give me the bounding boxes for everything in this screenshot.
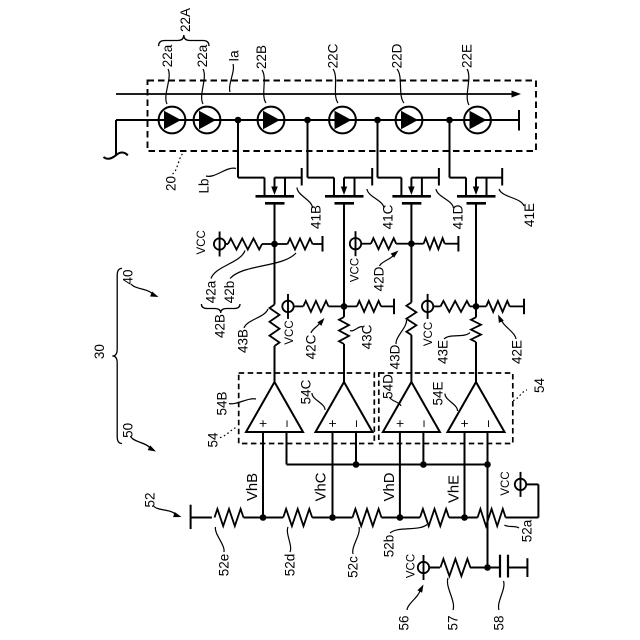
- node bus D: [420, 461, 427, 468]
- svg-text:42E: 42E: [510, 340, 525, 364]
- wire node B to 42b: [275, 243, 288, 245]
- transistor 41D: [378, 120, 439, 203]
- resistor 43D: [406, 302, 416, 335]
- node divider D: [408, 240, 415, 247]
- wire tap VhC to 52c: [333, 517, 353, 519]
- wire - input 54D to bus: [422, 432, 424, 465]
- resistor 43B: [270, 305, 280, 347]
- wire 43B to comparator: [274, 346, 276, 382]
- svg-text:41B: 41B: [309, 205, 324, 229]
- wire 42C-b to terminal: [381, 305, 394, 307]
- svg-text:VhD: VhD: [382, 473, 398, 502]
- svg-text:22C: 22C: [326, 43, 341, 68]
- svg-text:52d: 52d: [283, 554, 298, 577]
- node junction J3: [374, 117, 381, 124]
- VCC supply (channel C divider): [287, 294, 289, 319]
- svg-text:52c: 52c: [346, 556, 361, 578]
- wire VCC-D to resistor: [361, 243, 371, 245]
- node divider E: [473, 303, 480, 310]
- svg-text:+: +: [256, 419, 271, 427]
- wire to node B: [262, 243, 275, 245]
- svg-text:−: −: [416, 419, 431, 427]
- LED 22D: [396, 107, 423, 134]
- wire + input 54D to ladder tap: [399, 432, 401, 518]
- wire 52c to tap VhD: [382, 517, 400, 519]
- svg-text:54B: 54B: [215, 391, 230, 415]
- terminal bar cathode end: [518, 110, 520, 131]
- terminal bar ladder left: [190, 505, 192, 529]
- node tap VhC: [329, 514, 336, 521]
- resistor 52a: [478, 509, 506, 526]
- node junction J4: [446, 117, 453, 124]
- op-amp comparator 54D: [383, 382, 440, 432]
- svg-text:54C: 54C: [299, 379, 314, 404]
- svg-text:52a: 52a: [520, 519, 535, 542]
- svg-text:58: 58: [492, 615, 507, 630]
- wire 52e to tap VhB: [244, 517, 264, 519]
- svg-text:−: −: [481, 419, 496, 427]
- svg-text:30: 30: [92, 344, 107, 359]
- wire - input 54B to bus: [286, 432, 288, 465]
- dashed box 54 right half: [379, 373, 513, 444]
- wire node D down: [410, 244, 412, 303]
- wire 42E-b to terminal: [510, 305, 524, 307]
- node tap VhB: [260, 514, 267, 521]
- resistor 43E: [471, 317, 481, 342]
- wire to node C: [329, 305, 345, 307]
- wire 43D to comparator: [410, 335, 412, 382]
- svg-text:41C: 41C: [381, 204, 396, 229]
- svg-text:VCC: VCC: [406, 554, 418, 578]
- LED 22C: [329, 107, 356, 134]
- svg-text:54D: 54D: [381, 374, 396, 399]
- wire 43E to comparator: [475, 342, 477, 382]
- terminal bar 42D: [457, 236, 459, 252]
- resistor 42D-b: [424, 238, 445, 249]
- wire node C down: [343, 306, 345, 317]
- LED 22B: [258, 107, 285, 134]
- node bus E: [484, 461, 491, 468]
- node tap VhE: [461, 514, 468, 521]
- svg-text:VCC: VCC: [196, 230, 208, 254]
- op-amp comparator 54E: [448, 382, 505, 432]
- capacitor 58: [500, 555, 508, 578]
- resistor 52d: [283, 509, 312, 526]
- svg-text:43C: 43C: [360, 324, 375, 349]
- wire 52b to tap VhE: [449, 517, 465, 519]
- svg-text:52b: 52b: [382, 535, 397, 558]
- wire 57 to node: [470, 567, 488, 569]
- resistor 42C-b: [357, 301, 381, 312]
- op-amp comparator 54B: [246, 382, 303, 432]
- resistor 52c: [353, 509, 382, 526]
- svg-text:42B: 42B: [213, 314, 228, 338]
- svg-text:VhB: VhB: [245, 473, 261, 501]
- dashed box 20 (LED block): [148, 81, 537, 152]
- svg-text:VCC: VCC: [500, 471, 512, 495]
- wire + input 54B to ladder tap: [262, 432, 264, 518]
- terminal bar 42C: [393, 299, 395, 315]
- svg-text:VCC: VCC: [423, 322, 435, 346]
- wire + input 54C to ladder tap: [332, 432, 334, 518]
- wire corner up: [537, 484, 539, 517]
- wire gate lead 41E: [475, 203, 477, 306]
- svg-text:+: +: [325, 419, 340, 427]
- node divider B: [271, 241, 278, 248]
- node junction J1: [235, 117, 242, 124]
- wire ladder left: [191, 517, 212, 519]
- break squiggle: [104, 153, 128, 159]
- transistor 41E: [450, 120, 503, 203]
- wire left drop: [115, 120, 117, 155]
- wire tap VhD to 52b: [400, 517, 420, 519]
- wire VCC-B to resistor: [225, 243, 228, 245]
- svg-text:54E: 54E: [431, 381, 446, 405]
- wire - input 54C to bus: [355, 432, 357, 465]
- svg-text:22a: 22a: [160, 44, 175, 67]
- svg-text:52e: 52e: [217, 554, 232, 577]
- op-amp comparator 54C: [316, 382, 373, 432]
- wire VCC to resistor 57: [429, 567, 440, 569]
- svg-text:42D: 42D: [372, 266, 387, 291]
- resistor 42E-b: [486, 301, 509, 312]
- svg-text:54: 54: [206, 432, 221, 448]
- VCC supply (ladder top): [520, 472, 522, 497]
- terminal bar 42b: [322, 236, 324, 252]
- wire + input 54E to ladder tap: [464, 432, 466, 518]
- svg-text:22A: 22A: [178, 8, 193, 32]
- wire gate lead 41C: [343, 203, 345, 306]
- LED 22a #2: [194, 107, 221, 134]
- svg-text:VhC: VhC: [314, 472, 330, 501]
- wire tap VhB to 52d: [263, 517, 283, 519]
- transistor 41C: [308, 120, 373, 203]
- VCC supply (channel D divider): [355, 231, 357, 256]
- VCC supply (channel B divider): [219, 232, 221, 257]
- svg-text:Lb: Lb: [197, 178, 212, 193]
- wire - input 54E to bus and bottom: [487, 432, 489, 568]
- svg-text:20: 20: [164, 176, 179, 191]
- wire 52d to tap VhC: [312, 517, 332, 519]
- resistor 42D-a: [371, 238, 396, 249]
- LED 22E: [464, 107, 491, 134]
- svg-text:42a: 42a: [203, 280, 218, 303]
- wire LED anode row: [116, 119, 519, 121]
- svg-text:52: 52: [143, 492, 158, 507]
- transistor 41B: [238, 120, 302, 203]
- node divider C: [341, 303, 348, 310]
- brace 42B: [201, 304, 240, 313]
- wire node C to 42C-b: [344, 305, 357, 307]
- svg-text:43E: 43E: [436, 340, 451, 364]
- brace 22A: [159, 35, 209, 46]
- resistor 42C-a: [303, 301, 328, 312]
- wire capacitor to terminal: [508, 567, 527, 569]
- wire node B down: [274, 244, 276, 305]
- svg-text:+: +: [457, 419, 472, 427]
- terminal bar bottom: [526, 558, 528, 577]
- wire 42D-b to terminal: [445, 243, 459, 245]
- wire VCC-E to resistor: [433, 305, 440, 307]
- terminal bar 42E: [523, 299, 525, 315]
- wire node E down: [475, 306, 477, 317]
- VCC supply (channel E divider): [427, 294, 429, 319]
- svg-text:43D: 43D: [388, 344, 403, 369]
- node bus C: [353, 461, 360, 468]
- resistor 52e: [215, 509, 244, 526]
- svg-text:41E: 41E: [522, 203, 537, 227]
- wire 52a to corner: [506, 517, 539, 519]
- node junction J2: [304, 117, 311, 124]
- node tap VhD: [397, 514, 404, 521]
- dashed box 54 left half: [239, 373, 375, 444]
- wire node E to 42E-b: [476, 305, 486, 307]
- wire to VCC 52a: [526, 483, 538, 485]
- LED 22a #1: [159, 107, 186, 134]
- resistor 42E-a: [441, 301, 470, 312]
- wire 42b to terminal: [313, 243, 323, 245]
- svg-text:43B: 43B: [236, 329, 251, 353]
- wire Ia current line with arrow: [116, 93, 512, 95]
- svg-text:−: −: [280, 419, 295, 427]
- svg-text:42C: 42C: [304, 334, 319, 359]
- node bottom: [484, 564, 491, 571]
- svg-text:22a: 22a: [195, 44, 210, 67]
- svg-text:VCC: VCC: [284, 320, 296, 344]
- svg-text:Ia: Ia: [226, 50, 241, 62]
- resistor 43C: [339, 317, 349, 344]
- svg-text:56: 56: [397, 615, 412, 630]
- svg-text:22E: 22E: [460, 44, 475, 68]
- svg-text:40: 40: [121, 269, 136, 284]
- wire to node E: [470, 305, 476, 307]
- svg-text:−: −: [349, 419, 364, 427]
- svg-text:VhE: VhE: [447, 475, 463, 503]
- wire VCC-C to resistor: [294, 305, 304, 307]
- resistor 57: [440, 559, 470, 576]
- svg-text:22B: 22B: [254, 45, 269, 69]
- VCC supply (bottom branch 56): [423, 555, 425, 580]
- resistor 52b: [420, 509, 449, 526]
- resistor 42a: [228, 239, 262, 250]
- wire 43C to comparator: [343, 344, 345, 382]
- svg-text:50: 50: [121, 423, 136, 438]
- brace 30: [112, 268, 122, 443]
- svg-text:+: +: [392, 419, 407, 427]
- wire gate lead 41D: [410, 203, 412, 244]
- svg-text:VCC: VCC: [350, 258, 362, 282]
- wire tap VhE to 52a: [465, 517, 478, 519]
- svg-text:57: 57: [446, 615, 461, 630]
- svg-text:42b: 42b: [222, 281, 237, 304]
- wire node D to 42D-b: [411, 243, 423, 245]
- resistor 42b: [288, 239, 313, 250]
- svg-text:22D: 22D: [390, 43, 405, 68]
- wire node to capacitor: [488, 567, 501, 569]
- wire gate lead 41B: [274, 203, 276, 244]
- svg-text:41D: 41D: [451, 204, 466, 229]
- svg-text:54: 54: [532, 378, 547, 394]
- wire to node D: [396, 243, 411, 245]
- wire minus bus: [287, 464, 488, 466]
